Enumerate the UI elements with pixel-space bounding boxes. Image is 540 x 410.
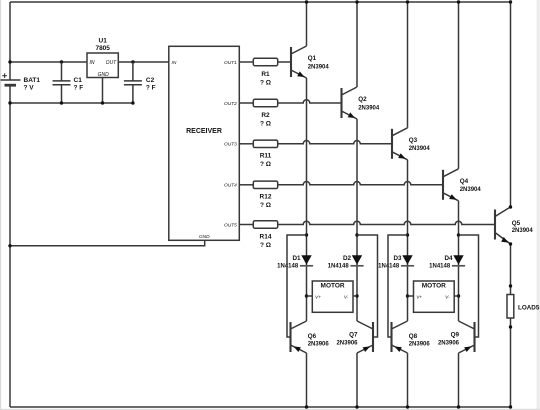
svg-text:OUT2: OUT2 (224, 101, 237, 107)
svg-text:BAT1: BAT1 (24, 77, 41, 84)
transistor Q1 2N3904 (290, 47, 292, 77)
transistor Q5 2N3904 (494, 210, 496, 240)
svg-text:OUT3: OUT3 (224, 142, 237, 148)
wire Q3 emitter column (407, 160, 409, 321)
wire M1 pins (307, 295, 358, 297)
svg-text:2N3904: 2N3904 (512, 228, 534, 234)
transistor Q6 2N3906 (289, 322, 291, 352)
wire Q3 collector to top rail (407, 2, 409, 128)
transistor Q9 2N3906 (473, 322, 475, 352)
transistor Q3 2N3904 (391, 129, 393, 159)
wire U1 GND down (102, 78, 104, 104)
wire Q2 emitter column (356, 119, 358, 321)
wire R12 to Q4 base (278, 182, 443, 185)
svg-text:? Ω: ? Ω (260, 79, 271, 86)
svg-text:7805: 7805 (95, 45, 110, 52)
svg-text:R11: R11 (260, 153, 272, 160)
svg-text:D2: D2 (343, 255, 352, 262)
wire Q4 emitter column (458, 201, 460, 321)
svg-text:D4: D4 (444, 255, 453, 262)
svg-text:OUT4: OUT4 (224, 183, 237, 189)
svg-text:Q5: Q5 (512, 220, 521, 227)
svg-text:V+: V+ (315, 294, 321, 300)
wire U1 OUT to receiver (118, 61, 169, 63)
svg-text:V-: V- (445, 294, 450, 300)
resistor R14 (239, 224, 253, 226)
bottom rail (10, 406, 511, 408)
svg-text:V+: V+ (416, 294, 422, 300)
wire Q1 emitter column (306, 78, 308, 321)
svg-text:? Ω: ? Ω (260, 202, 271, 209)
svg-text:LOAD5: LOAD5 (518, 304, 540, 311)
wire R1 to Q1 base (278, 61, 291, 63)
svg-text:RECEIVER: RECEIVER (186, 128, 222, 135)
svg-text:U1: U1 (99, 38, 108, 45)
svg-text:1N4148: 1N4148 (378, 264, 400, 270)
wire R11 to Q3 base (278, 141, 392, 144)
svg-text:Q4: Q4 (460, 178, 469, 185)
svg-text:1N4148: 1N4148 (277, 264, 299, 270)
wire Q1 collector to top rail (306, 2, 308, 46)
diode D4 1N4148 (453, 255, 463, 264)
diode D2 1N4148 (352, 255, 362, 264)
wire branch to Q7 base (357, 235, 378, 337)
svg-text:Q2: Q2 (358, 96, 367, 103)
svg-text:2N3904: 2N3904 (460, 187, 482, 193)
svg-text:V-: V- (344, 294, 349, 300)
transistor Q2 2N3904 (340, 88, 342, 118)
svg-text:2N3906: 2N3906 (308, 342, 330, 348)
svg-text:R1: R1 (261, 71, 270, 78)
svg-text:? Ω: ? Ω (260, 120, 271, 127)
svg-text:? Ω: ? Ω (260, 161, 271, 168)
node: V+ wire top (10, 61, 87, 63)
capacitor C2 (132, 62, 134, 103)
motor M2 (414, 281, 455, 312)
svg-text:GND: GND (98, 72, 110, 78)
svg-text:D1: D1 (292, 255, 301, 262)
capacitor C1 (61, 62, 63, 103)
svg-text:MOTOR: MOTOR (422, 282, 446, 289)
svg-text:? F: ? F (74, 85, 84, 92)
motor M1 (312, 281, 353, 312)
wire Q9 emitter to bottom rail (458, 353, 460, 407)
svg-text:? F: ? F (146, 85, 156, 92)
left rail (9, 2, 11, 407)
ground return wire (10, 102, 133, 104)
resistor R11 (239, 143, 253, 145)
svg-text:R14: R14 (260, 233, 272, 240)
svg-text:1N4148: 1N4148 (328, 264, 350, 270)
svg-text:1N4148: 1N4148 (429, 264, 451, 270)
receiver U2 (169, 46, 240, 240)
resistor LOAD5 (507, 295, 514, 319)
svg-text:2N3904: 2N3904 (409, 146, 431, 152)
wire Q7 emitter to bottom rail (356, 353, 358, 407)
svg-text:2N3906: 2N3906 (438, 340, 460, 346)
svg-text:OUT: OUT (106, 60, 118, 66)
wire Q4 collector to top rail (458, 2, 460, 169)
wire branch to Q9 base (459, 235, 479, 337)
transistor Q7 2N3906 (372, 322, 374, 352)
receiver GND wire (10, 240, 205, 246)
wire R14 to Q5 base (278, 221, 495, 224)
svg-text:OUT5: OUT5 (224, 222, 237, 228)
svg-text:? V: ? V (24, 85, 35, 92)
diode D3 1N4148 (402, 255, 412, 264)
svg-text:R12: R12 (260, 194, 272, 201)
wire branch to Q8 base (388, 235, 408, 337)
svg-text:Q7: Q7 (349, 332, 358, 339)
top rail (10, 1, 511, 3)
diode D1 1N4148 (301, 255, 311, 264)
svg-text:R2: R2 (261, 112, 270, 119)
wire Q8 emitter to bottom rail (407, 353, 409, 407)
svg-text:Q6: Q6 (308, 333, 317, 340)
svg-text:GND: GND (199, 234, 210, 240)
svg-text:Q3: Q3 (409, 137, 418, 144)
svg-text:IN: IN (172, 60, 177, 66)
svg-text:Q9: Q9 (451, 332, 460, 339)
transistor Q4 2N3904 (442, 170, 444, 200)
svg-text:2N3906: 2N3906 (336, 340, 358, 346)
svg-text:C2: C2 (146, 77, 155, 84)
wire Q6 emitter to bottom rail (306, 353, 308, 407)
svg-text:Q8: Q8 (409, 333, 418, 340)
regulator U1 7805 (87, 53, 118, 78)
svg-text:2N3906: 2N3906 (409, 342, 431, 348)
svg-text:2N3904: 2N3904 (308, 64, 330, 70)
wire M2 pins (408, 295, 459, 297)
svg-text:IN: IN (90, 60, 95, 66)
wire Q5 collector/emitter column (509, 205, 512, 208)
wire Q2 collector to top rail (356, 2, 358, 87)
svg-text:C1: C1 (74, 77, 83, 84)
wire Q5 collector to top rail (510, 2, 512, 207)
svg-text:OUT1: OUT1 (224, 60, 237, 66)
resistor R1 (239, 61, 253, 63)
svg-text:? Ω: ? Ω (260, 242, 271, 249)
wire R2 to Q2 base (278, 100, 342, 103)
battery BAT1 (1, 79, 21, 81)
wire branch to Q6 base (287, 235, 307, 337)
svg-text:Q1: Q1 (308, 55, 317, 62)
svg-text:D3: D3 (393, 255, 402, 262)
svg-text:MOTOR: MOTOR (321, 282, 345, 289)
resistor R2 (239, 102, 253, 104)
svg-text:2N3904: 2N3904 (358, 105, 380, 111)
resistor R12 (239, 184, 253, 186)
transistor Q8 2N3906 (390, 322, 392, 352)
